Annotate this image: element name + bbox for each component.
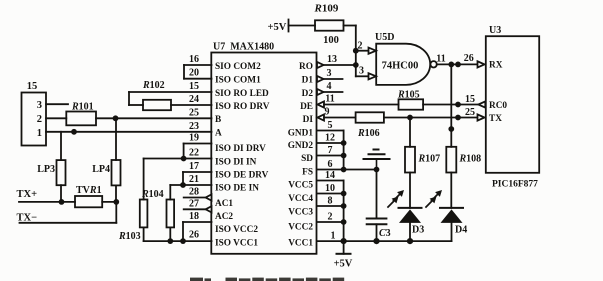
svg-text:16: 16 — [189, 54, 199, 65]
svg-text:27: 27 — [189, 198, 199, 209]
svg-text:ISO VCC2: ISO VCC2 — [215, 225, 258, 235]
D3 emission arrows — [388, 190, 404, 207]
wire R108 to D4 — [450, 173, 452, 208]
svg-text:U7 MAX1480: U7 MAX1480 — [213, 42, 274, 53]
svg-text:D3: D3 — [412, 225, 424, 236]
wire R109 to node — [344, 26, 356, 77]
junction SD — [341, 153, 347, 159]
wire TVR1 to node — [102, 201, 116, 203]
pin AC1 stub with arrow — [184, 194, 212, 200]
wire A line down to LP3 — [60, 132, 62, 160]
svg-text:2: 2 — [328, 212, 333, 223]
svg-text:15: 15 — [27, 81, 38, 92]
svg-text:DE: DE — [300, 102, 313, 112]
junction B/LP4 — [113, 115, 119, 121]
svg-text:TX: TX — [489, 114, 502, 124]
connector J1 15-pin — [22, 81, 47, 146]
svg-text:8: 8 — [328, 196, 333, 207]
wire LP3 to TX+ node — [60, 185, 62, 202]
svg-text:6: 6 — [328, 159, 333, 170]
svg-text:3: 3 — [37, 100, 42, 111]
svg-text:AC1: AC1 — [215, 199, 233, 209]
node TX- — [17, 202, 117, 224]
wire VCC5 to bus — [317, 180, 344, 182]
svg-text:VCC5: VCC5 — [288, 181, 313, 191]
resistor R108 — [446, 147, 481, 173]
pin DE with arrow — [318, 94, 399, 108]
junction gate input 2 branch — [353, 48, 359, 54]
svg-text:PIC16F877: PIC16F877 — [492, 180, 538, 190]
svg-text:VCC4: VCC4 — [288, 194, 313, 204]
wire R105 to U3 RC0 — [423, 94, 485, 108]
junction VCC2 — [341, 219, 347, 225]
svg-text:24: 24 — [189, 94, 199, 105]
resistor R106 — [356, 112, 384, 139]
svg-text:28: 28 — [189, 187, 199, 198]
caption sliver (bottom, cut-off Chinese caption) — [190, 278, 344, 281]
svg-text:U3: U3 — [489, 25, 501, 36]
wire VCC4 — [317, 193, 344, 195]
svg-text:5: 5 — [328, 120, 333, 131]
wire pins 17-21 bracket — [170, 172, 211, 188]
svg-text:D2: D2 — [302, 89, 314, 99]
wire down to R104 — [169, 185, 171, 200]
wire B line down to LP4 — [115, 118, 117, 160]
power +5V top — [268, 20, 316, 34]
svg-text:26: 26 — [464, 53, 474, 64]
wire VCC2 — [317, 221, 344, 223]
svg-text:9: 9 — [325, 107, 330, 118]
LED D3 — [399, 208, 425, 236]
svg-text:ISO DI DRV: ISO DI DRV — [215, 144, 266, 154]
svg-text:RC0: RC0 — [489, 101, 507, 111]
resistor R104 — [141, 189, 174, 227]
resistor R107 — [405, 147, 440, 173]
junction rail/bus — [341, 238, 347, 244]
D4 emission arrows — [426, 190, 442, 207]
svg-text:LP4: LP4 — [92, 164, 110, 175]
svg-text:R102: R102 — [142, 80, 165, 91]
svg-text:TVR1: TVR1 — [76, 185, 102, 196]
pin AC2 stub with arrow — [184, 206, 212, 212]
wire D3 to rail — [409, 223, 411, 241]
svg-text:26: 26 — [189, 229, 199, 240]
wire bottom-left rail (pin26 / ISO VCC1) — [144, 238, 212, 244]
svg-text:3: 3 — [359, 66, 364, 77]
capacitor C3 — [367, 219, 391, 240]
svg-text:13: 13 — [327, 54, 337, 65]
wire R103 to bottom rail — [143, 227, 145, 241]
svg-text:ISO VCC1: ISO VCC1 — [215, 238, 258, 248]
IC U3 PIC16F877 — [486, 25, 539, 190]
resistor R102 between pins 15 and 24 — [129, 80, 212, 110]
svg-text:R103: R103 — [118, 231, 141, 242]
power +5V bottom — [334, 241, 353, 269]
svg-text:1: 1 — [331, 231, 336, 242]
svg-text:2: 2 — [358, 41, 363, 52]
resistor R103 — [118, 200, 147, 242]
svg-text:74HC00: 74HC00 — [382, 60, 419, 71]
wire SD to bus — [317, 155, 344, 157]
junction FS/ground column — [374, 167, 380, 173]
wire B net: R101 to U7 pin25 — [96, 117, 212, 119]
junction RO node — [353, 62, 359, 68]
svg-text:3: 3 — [327, 68, 332, 79]
svg-text:R105: R105 — [397, 90, 420, 101]
svg-text:25: 25 — [189, 107, 199, 118]
svg-text:R107: R107 — [418, 154, 441, 165]
wire R106 to U3 TX — [384, 107, 485, 121]
junction on A line — [71, 129, 77, 135]
svg-text:LP3: LP3 — [37, 164, 55, 175]
pin RO output with arrow — [317, 54, 356, 68]
U7 left pin labels — [215, 62, 270, 249]
svg-text:R108: R108 — [459, 154, 482, 165]
svg-text:10: 10 — [325, 183, 335, 194]
wire R104 to bottom rail — [169, 227, 171, 241]
wire down to R103 — [143, 159, 145, 200]
svg-text:RO: RO — [299, 62, 313, 72]
gnd bus vertical — [343, 131, 345, 170]
wire gate output to U3 RX — [436, 53, 484, 68]
svg-text:U5D: U5D — [375, 32, 394, 43]
svg-text:C3: C3 — [379, 228, 391, 239]
junction on R108 wire — [448, 126, 454, 132]
vcc bus vertical — [343, 181, 345, 242]
svg-text:23: 23 — [189, 121, 199, 132]
wire D4 to rail — [451, 223, 453, 241]
U7 right pin labels — [288, 62, 314, 249]
svg-text:TX−: TX− — [17, 213, 38, 224]
svg-text:SIO RO LED: SIO RO LED — [215, 89, 269, 99]
node TX+ — [17, 189, 76, 205]
svg-text:11: 11 — [325, 94, 334, 105]
wire R107 to D3 — [409, 173, 411, 208]
svg-text:FS: FS — [302, 167, 313, 177]
wire pins 18-26 bracket — [183, 222, 212, 241]
inductor LP3 — [37, 160, 65, 185]
wire VCC3 — [317, 205, 344, 207]
inductor LP4 — [92, 160, 120, 185]
svg-text:D1: D1 — [302, 75, 314, 85]
junction VCC3 — [341, 203, 347, 209]
svg-text:1: 1 — [37, 128, 42, 139]
wire GND1 to bus — [317, 130, 344, 132]
svg-text:DI: DI — [303, 115, 314, 125]
svg-text:25: 25 — [465, 107, 475, 118]
wire pins 19-22 bracket — [144, 144, 212, 162]
varistor TVR1 — [75, 185, 102, 207]
NAND gate U5D 74HC00 — [375, 32, 437, 85]
svg-text:RX: RX — [489, 61, 503, 71]
svg-text:AC2: AC2 — [215, 212, 233, 222]
wire C3 to rail — [376, 224, 378, 241]
wire to gate input 2 — [356, 41, 376, 54]
svg-text:+5V: +5V — [334, 259, 353, 270]
svg-text:B: B — [215, 115, 221, 125]
wire LP4 to TX- node — [115, 185, 117, 202]
wire pins 16-20 bracket — [184, 65, 212, 79]
resistor R109 — [314, 3, 344, 47]
junction GND2 — [341, 140, 347, 146]
resistor R101 — [46, 102, 96, 126]
pin D2 stub — [317, 81, 343, 95]
svg-text:14: 14 — [325, 170, 335, 181]
svg-text:+5V: +5V — [268, 22, 287, 33]
wire A net: connector pin1 to U7 pin23 — [46, 131, 212, 133]
LED D4 — [440, 208, 467, 236]
svg-text:17: 17 — [189, 161, 199, 172]
U3 pin labels — [489, 61, 507, 124]
wire pin3 stub — [46, 103, 68, 105]
svg-text:R106: R106 — [357, 128, 380, 139]
U7 left pin numbers — [189, 54, 199, 240]
svg-text:SD: SD — [301, 154, 313, 164]
svg-text:15: 15 — [465, 94, 475, 105]
junction rail/D3 — [407, 238, 413, 244]
wire VCC1 / +5V rail — [317, 240, 452, 242]
svg-text:GND1: GND1 — [288, 128, 314, 138]
svg-text:ISO DE DRV: ISO DE DRV — [215, 171, 269, 181]
svg-text:ISO DE IN: ISO DE IN — [215, 184, 259, 194]
svg-text:2: 2 — [37, 114, 42, 125]
resistor R105 — [397, 90, 423, 110]
right pin numbers GND group — [325, 120, 336, 242]
svg-text:7: 7 — [328, 145, 333, 156]
svg-text:GND2: GND2 — [288, 141, 314, 151]
svg-text:12: 12 — [325, 133, 335, 144]
ground symbol — [364, 150, 390, 170]
wire FS to ground column — [317, 169, 377, 171]
svg-text:4: 4 — [327, 81, 332, 92]
pin DI with arrow — [318, 107, 356, 121]
svg-text:15: 15 — [189, 81, 199, 92]
svg-text:22: 22 — [189, 148, 199, 159]
wire DI line down to R107 — [409, 118, 411, 147]
wire ground column to C3 — [376, 170, 378, 219]
wire to gate input 3 — [356, 66, 376, 80]
svg-text:TX+: TX+ — [17, 189, 38, 200]
pin D1 stub — [317, 68, 343, 82]
svg-text:ISO COM1: ISO COM1 — [215, 75, 261, 85]
junction rail/C3 — [373, 238, 379, 244]
svg-text:A: A — [215, 128, 222, 138]
svg-text:VCC3: VCC3 — [288, 207, 313, 217]
svg-text:VCC2: VCC2 — [288, 222, 313, 232]
svg-text:R109: R109 — [314, 3, 339, 15]
junction TVR1/LP4/TX- — [113, 199, 119, 205]
svg-text:ISO DI IN: ISO DI IN — [215, 157, 257, 167]
junction VCC4 — [341, 191, 347, 197]
svg-text:D4: D4 — [455, 225, 467, 236]
svg-text:21: 21 — [189, 174, 199, 185]
wire GND2 to bus — [317, 142, 344, 144]
svg-text:19: 19 — [189, 133, 199, 144]
svg-text:18: 18 — [189, 211, 199, 222]
IC U7 MAX1480 — [211, 42, 316, 254]
svg-text:100: 100 — [323, 35, 339, 46]
svg-text:SIO COM2: SIO COM2 — [215, 62, 261, 72]
svg-text:R104: R104 — [141, 189, 164, 200]
svg-text:ISO RO DRV: ISO RO DRV — [215, 102, 270, 112]
svg-text:20: 20 — [189, 68, 199, 79]
svg-text:VCC1: VCC1 — [288, 238, 313, 248]
junction FS — [341, 167, 347, 173]
wire RX line down to R108 — [450, 64, 452, 146]
svg-text:11: 11 — [436, 54, 445, 65]
svg-text:R101: R101 — [71, 102, 94, 113]
